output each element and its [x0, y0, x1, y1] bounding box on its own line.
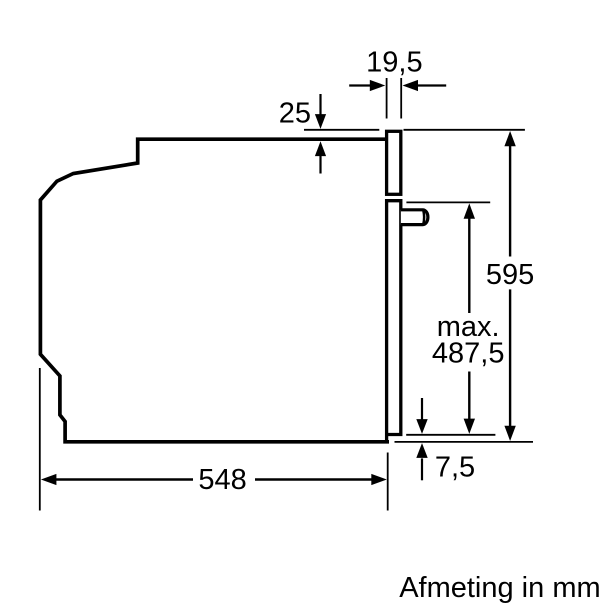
svg-text:25: 25 [279, 98, 311, 130]
dimension max487 line lower [468, 372, 470, 421]
dimension 548 left arrowhead [41, 474, 57, 485]
dimension 548 line left [56, 478, 194, 480]
dimension max487 top arrowhead [464, 203, 475, 218]
svg-text:19,5: 19,5 [366, 47, 422, 79]
extension line 19,5 right [400, 78, 402, 119]
control knob [401, 210, 428, 225]
extension line 19,5 left [386, 78, 388, 119]
dimension 19,5 right arrow [418, 84, 446, 86]
svg-text:487,5: 487,5 [432, 337, 505, 369]
oven body outline [40, 139, 389, 442]
svg-text:7,5: 7,5 [435, 452, 475, 484]
dimension max487 bottom arrowhead [464, 419, 475, 434]
dimension 595 bottom arrowhead [504, 426, 515, 441]
dimension 19,5 left arrow [349, 84, 370, 86]
dimension 595 top arrowhead [504, 131, 515, 146]
dimension 548 right arrowhead [371, 474, 387, 485]
dimension 595 line lower [509, 289, 511, 427]
reference line door top left [304, 129, 379, 131]
svg-text:548: 548 [198, 464, 246, 496]
dimension 7,5 up arrow [421, 458, 423, 480]
extension line 548 left [39, 368, 41, 511]
oven front door panel (lower) [387, 201, 401, 442]
dimension max487 line upper [468, 217, 470, 313]
reference line door top right (595 top) [404, 129, 525, 131]
extension line 548 right [387, 453, 389, 511]
knob cap line [422, 211, 425, 224]
dimension 7,5 down arrow [421, 398, 423, 420]
reference line max487 top [406, 201, 490, 203]
reference line door bottom right (7,5 top) [406, 434, 495, 436]
dimension 25 up arrow [319, 156, 321, 174]
dimension 25 down arrow [319, 94, 321, 115]
svg-text:595: 595 [486, 259, 534, 291]
svg-text:Afmeting in mm: Afmeting in mm [399, 572, 600, 604]
reference line body bottom right (595 bottom) [395, 441, 534, 443]
dimension 595 line upper [509, 145, 511, 257]
oven front frame upper strip (door top) [387, 131, 401, 194]
dimension 548 line right [255, 478, 372, 480]
